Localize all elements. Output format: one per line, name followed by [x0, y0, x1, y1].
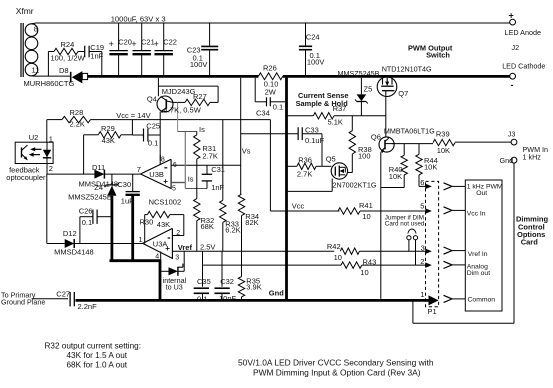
svg-text:1uF: 1uF: [121, 197, 134, 206]
svg-text:R30: R30: [140, 218, 154, 227]
svg-text:J3: J3: [508, 130, 516, 139]
svg-text:C31: C31: [211, 165, 225, 174]
svg-text:10: 10: [360, 268, 368, 277]
svg-text:2.7K: 2.7K: [202, 151, 217, 160]
svg-text:R27: R27: [193, 92, 207, 101]
svg-text:68K for 1.0 A out: 68K for 1.0 A out: [67, 360, 128, 369]
svg-text:Q7: Q7: [398, 89, 408, 98]
svg-text:Gnd: Gnd: [269, 289, 284, 298]
svg-text:LED Cathode: LED Cathode: [502, 62, 545, 71]
svg-text:0.1uF: 0.1uF: [305, 136, 325, 145]
svg-text:2W: 2W: [265, 87, 277, 96]
svg-text:11: 11: [32, 66, 40, 75]
svg-text:43K: 43K: [102, 136, 115, 145]
svg-text:Gnd: Gnd: [500, 156, 514, 165]
svg-text:10K: 10K: [389, 172, 402, 181]
svg-text:100V: 100V: [307, 57, 325, 66]
svg-text:P1: P1: [428, 307, 437, 316]
svg-text:R39: R39: [436, 129, 450, 138]
svg-text:43K for 1.5 A out: 43K for 1.5 A out: [67, 351, 128, 360]
svg-text:C33: C33: [305, 125, 319, 134]
svg-text:C24: C24: [306, 32, 320, 41]
svg-text:3: 3: [175, 254, 179, 261]
svg-text:68K: 68K: [201, 222, 214, 231]
svg-text:Vcc In: Vcc In: [467, 210, 486, 217]
svg-text:R32 output current setting:: R32 output current setting:: [45, 342, 142, 351]
svg-text:+: +: [131, 39, 136, 49]
svg-text:NTD12N10T4G: NTD12N10T4G: [382, 65, 432, 74]
svg-text:Q5: Q5: [326, 154, 336, 163]
svg-text:82K: 82K: [245, 218, 258, 227]
svg-text:C25: C25: [146, 122, 160, 131]
svg-text:R43: R43: [363, 258, 377, 267]
svg-text:C20: C20: [118, 38, 132, 47]
svg-text:100, 1/2W: 100, 1/2W: [51, 53, 86, 62]
svg-text:100V: 100V: [190, 60, 208, 69]
svg-text:MURH860CTG: MURH860CTG: [24, 79, 75, 88]
svg-text:R41: R41: [359, 201, 373, 210]
svg-text:Card not used: Card not used: [385, 221, 425, 228]
svg-text:+: +: [109, 39, 114, 49]
svg-text:D8: D8: [59, 66, 69, 75]
svg-text:1: 1: [139, 235, 143, 244]
svg-text:U3A: U3A: [153, 239, 168, 248]
svg-text:to U3: to U3: [166, 283, 183, 292]
svg-text:Vcc: Vcc: [292, 201, 305, 210]
svg-text:Is: Is: [188, 175, 194, 184]
svg-text:+: +: [154, 39, 159, 49]
svg-text:Card: Card: [521, 237, 539, 246]
svg-text:6.2K: 6.2K: [225, 226, 240, 235]
svg-text:0.1: 0.1: [273, 103, 283, 112]
svg-text:43K: 43K: [157, 220, 170, 229]
svg-text:R26: R26: [263, 64, 277, 73]
svg-text:R28: R28: [70, 108, 84, 117]
svg-text:Switch: Switch: [426, 51, 450, 60]
svg-text:R37: R37: [333, 104, 347, 113]
svg-text:J2: J2: [512, 43, 520, 52]
svg-text:C35: C35: [197, 277, 211, 286]
svg-text:+: +: [509, 10, 514, 20]
svg-text:1: 1: [420, 290, 424, 299]
svg-text:1000uF, 63V x 3: 1000uF, 63V x 3: [111, 14, 166, 23]
svg-text:R42: R42: [327, 242, 341, 251]
svg-text:MMSD4148: MMSD4148: [54, 248, 94, 257]
svg-text:R24: R24: [61, 40, 75, 49]
svg-text:4.7K, 0.5W: 4.7K, 0.5W: [164, 105, 202, 114]
svg-text:Vref: Vref: [178, 243, 193, 252]
svg-text:Xfmr: Xfmr: [16, 6, 34, 16]
svg-text:LED Anode: LED Anode: [505, 28, 541, 37]
svg-text:Vref In: Vref In: [468, 251, 488, 258]
svg-text:Is: Is: [199, 125, 205, 134]
svg-text:C26: C26: [79, 206, 93, 215]
svg-text:2.2nF: 2.2nF: [78, 302, 98, 311]
svg-text:5: 5: [420, 202, 424, 211]
svg-text:Z5: Z5: [364, 84, 373, 93]
svg-text:C22: C22: [163, 38, 177, 47]
svg-text:C32: C32: [220, 277, 234, 286]
svg-text:0.1: 0.1: [197, 295, 207, 304]
svg-text:5.1K: 5.1K: [328, 118, 343, 127]
svg-text:NCS1002: NCS1002: [149, 197, 182, 206]
svg-text:C34: C34: [256, 108, 270, 117]
svg-text:Q6: Q6: [371, 132, 381, 141]
svg-text:D12: D12: [63, 229, 77, 238]
svg-text:-: -: [511, 80, 514, 90]
svg-text:PWM Dimming Input & Option Car: PWM Dimming Input & Option Card (Rev 3A): [253, 367, 421, 377]
svg-text:C27: C27: [56, 289, 70, 298]
svg-text:8: 8: [34, 25, 38, 34]
svg-text:R29: R29: [101, 124, 115, 133]
svg-text:Vcc = 14V: Vcc = 14V: [116, 111, 150, 120]
svg-text:7: 7: [137, 165, 141, 174]
svg-text:MMSZ5245B: MMSZ5245B: [338, 69, 380, 78]
svg-text:optocoupler: optocoupler: [6, 173, 46, 182]
svg-text:Z4: Z4: [94, 183, 103, 192]
svg-text:Q4: Q4: [147, 94, 157, 103]
svg-text:2: 2: [176, 230, 180, 237]
svg-text:C30: C30: [117, 180, 131, 189]
svg-text:6: 6: [173, 162, 177, 169]
svg-text:3.9K: 3.9K: [246, 282, 261, 291]
svg-text:R36: R36: [298, 156, 312, 165]
svg-text:2N7002KT1G: 2N7002KT1G: [333, 180, 377, 189]
svg-text:1nF: 1nF: [211, 183, 224, 192]
svg-text:Dim out: Dim out: [467, 270, 491, 277]
svg-text:1: 1: [49, 134, 53, 143]
svg-text:Out: Out: [476, 190, 487, 197]
svg-text:0.1: 0.1: [148, 139, 158, 148]
svg-text:D11: D11: [92, 163, 105, 172]
svg-text:10K: 10K: [437, 146, 450, 155]
svg-text:3: 3: [421, 243, 425, 252]
svg-text:2: 2: [420, 257, 424, 266]
svg-text:4: 4: [155, 253, 159, 260]
svg-text:1 kHz: 1 kHz: [523, 153, 542, 162]
svg-text:10nF: 10nF: [219, 294, 237, 303]
svg-text:MMSZ5245B: MMSZ5245B: [68, 192, 112, 201]
svg-text:2.7K: 2.7K: [297, 169, 312, 178]
svg-text:Common: Common: [468, 296, 496, 303]
svg-text:6: 6: [420, 178, 424, 187]
svg-text:+: +: [163, 177, 168, 186]
svg-text:MMBTA06LT1G: MMBTA06LT1G: [384, 126, 435, 135]
svg-text:100: 100: [358, 152, 371, 161]
svg-text:Ground Plane: Ground Plane: [1, 297, 45, 306]
svg-text:10: 10: [362, 212, 370, 221]
svg-text:U3B: U3B: [149, 170, 164, 179]
svg-text:U2: U2: [29, 133, 39, 142]
svg-text:10: 10: [334, 253, 342, 262]
svg-text:50V/1.0A LED Driver CVCC Secon: 50V/1.0A LED Driver CVCC Secondary Sensi…: [238, 358, 434, 368]
svg-text:8: 8: [161, 156, 165, 163]
svg-text:5: 5: [172, 185, 176, 192]
svg-text:2: 2: [49, 164, 53, 173]
svg-text:1nF: 1nF: [90, 51, 103, 60]
svg-text:Vs: Vs: [242, 147, 251, 156]
svg-text:2.5V: 2.5V: [200, 243, 215, 252]
svg-text:0.1: 0.1: [82, 218, 92, 227]
svg-text:MJD243G: MJD243G: [162, 87, 196, 96]
svg-text:2.2K: 2.2K: [70, 119, 85, 128]
svg-text:10K: 10K: [424, 162, 437, 171]
